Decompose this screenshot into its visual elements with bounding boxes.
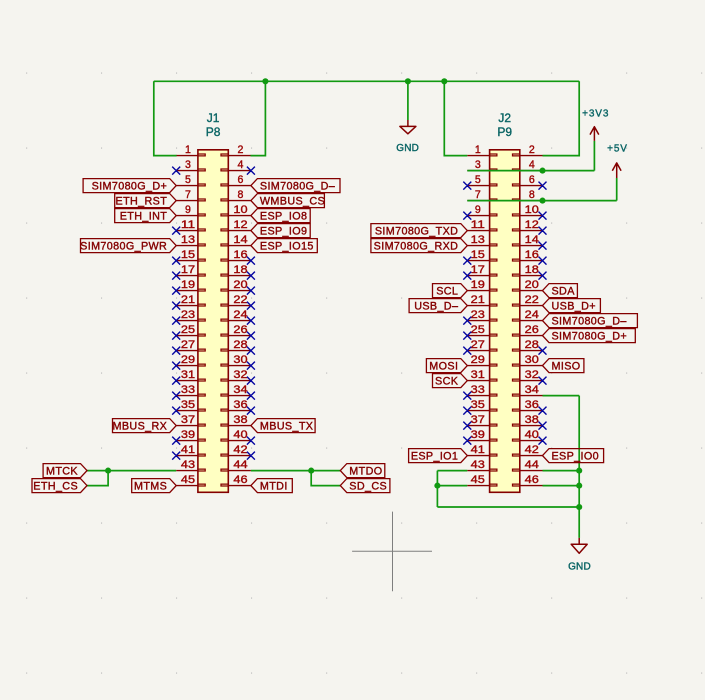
svg-text:43: 43 — [181, 459, 195, 471]
svg-text:32: 32 — [525, 369, 539, 381]
svg-text:43: 43 — [471, 459, 485, 471]
svg-text:36: 36 — [233, 399, 247, 411]
svg-text:45: 45 — [181, 474, 195, 486]
svg-text:35: 35 — [471, 399, 485, 411]
svg-text:20: 20 — [233, 279, 247, 291]
svg-text:SDA: SDA — [552, 286, 576, 298]
svg-text:J2: J2 — [498, 111, 511, 125]
svg-text:4: 4 — [238, 159, 244, 171]
svg-text:SIM7080G_PWR: SIM7080G_PWR — [80, 241, 167, 253]
svg-text:19: 19 — [181, 279, 195, 291]
svg-text:44: 44 — [233, 459, 247, 471]
svg-text:30: 30 — [233, 354, 247, 366]
svg-text:ESP_IO0: ESP_IO0 — [552, 451, 599, 463]
svg-text:29: 29 — [471, 354, 485, 366]
svg-text:3: 3 — [475, 159, 481, 171]
svg-text:ETH_RST: ETH_RST — [116, 196, 168, 208]
svg-text:MTDI: MTDI — [260, 481, 288, 493]
svg-text:P8: P8 — [206, 125, 221, 139]
svg-text:10: 10 — [525, 204, 539, 216]
svg-text:5: 5 — [475, 174, 481, 186]
svg-text:17: 17 — [181, 264, 195, 276]
svg-text:40: 40 — [233, 429, 247, 441]
svg-text:24: 24 — [525, 309, 539, 321]
svg-text:P9: P9 — [497, 125, 512, 139]
svg-text:8: 8 — [238, 189, 244, 201]
svg-text:SIM7080G_D–: SIM7080G_D– — [552, 316, 627, 328]
svg-text:41: 41 — [471, 444, 485, 456]
svg-text:34: 34 — [525, 384, 539, 396]
svg-text:46: 46 — [525, 474, 539, 486]
svg-text:MOSI: MOSI — [429, 361, 458, 373]
svg-text:J1: J1 — [207, 111, 220, 125]
svg-text:26: 26 — [233, 324, 247, 336]
svg-text:16: 16 — [233, 249, 247, 261]
svg-text:ETH_CS: ETH_CS — [33, 481, 78, 493]
svg-text:22: 22 — [525, 294, 539, 306]
svg-text:12: 12 — [233, 219, 247, 231]
svg-text:37: 37 — [471, 414, 485, 426]
svg-text:44: 44 — [525, 459, 539, 471]
svg-text:20: 20 — [525, 279, 539, 291]
svg-text:28: 28 — [525, 339, 539, 351]
svg-text:+3V3: +3V3 — [582, 108, 609, 119]
svg-text:29: 29 — [181, 354, 195, 366]
svg-text:SCK: SCK — [435, 376, 459, 388]
svg-text:6: 6 — [238, 174, 244, 186]
svg-text:39: 39 — [181, 429, 195, 441]
svg-text:33: 33 — [181, 384, 195, 396]
svg-text:GND: GND — [568, 561, 591, 572]
svg-text:SIM7080G_TXD: SIM7080G_TXD — [375, 226, 458, 238]
svg-text:WMBUS_CS: WMBUS_CS — [260, 196, 325, 208]
svg-text:MTCK: MTCK — [46, 466, 78, 478]
svg-text:14: 14 — [525, 234, 539, 246]
svg-text:18: 18 — [233, 264, 247, 276]
svg-text:46: 46 — [233, 474, 247, 486]
svg-text:18: 18 — [525, 264, 539, 276]
svg-text:32: 32 — [233, 369, 247, 381]
svg-text:13: 13 — [471, 234, 485, 246]
svg-text:SCL: SCL — [436, 286, 458, 298]
svg-text:2: 2 — [238, 144, 244, 156]
svg-text:1: 1 — [475, 144, 481, 156]
svg-text:MBUS_RX: MBUS_RX — [113, 421, 168, 433]
svg-text:42: 42 — [233, 444, 247, 456]
svg-text:SIM7080G_RXD: SIM7080G_RXD — [374, 241, 459, 253]
svg-text:25: 25 — [181, 324, 195, 336]
svg-text:22: 22 — [233, 294, 247, 306]
svg-text:3: 3 — [185, 159, 191, 171]
svg-text:MISO: MISO — [552, 361, 581, 373]
svg-text:27: 27 — [181, 339, 195, 351]
svg-text:11: 11 — [181, 219, 195, 231]
svg-text:38: 38 — [525, 414, 539, 426]
svg-text:19: 19 — [471, 279, 485, 291]
svg-text:38: 38 — [233, 414, 247, 426]
svg-text:ESP_IO15: ESP_IO15 — [260, 241, 314, 253]
svg-text:MBUS_TX: MBUS_TX — [260, 421, 313, 433]
svg-text:41: 41 — [181, 444, 195, 456]
svg-text:23: 23 — [181, 309, 195, 321]
svg-text:36: 36 — [525, 399, 539, 411]
svg-text:16: 16 — [525, 249, 539, 261]
svg-text:9: 9 — [185, 204, 191, 216]
svg-text:ETH_INT: ETH_INT — [120, 211, 167, 223]
svg-text:21: 21 — [181, 294, 195, 306]
svg-text:ESP_IO9: ESP_IO9 — [260, 226, 307, 238]
svg-text:26: 26 — [525, 324, 539, 336]
svg-text:2: 2 — [529, 144, 535, 156]
svg-text:SIM7080G_D+: SIM7080G_D+ — [92, 181, 168, 193]
svg-text:ESP_IO8: ESP_IO8 — [260, 211, 307, 223]
svg-text:6: 6 — [529, 174, 535, 186]
svg-text:37: 37 — [181, 414, 195, 426]
svg-text:10: 10 — [233, 204, 247, 216]
svg-text:9: 9 — [475, 204, 481, 216]
svg-text:39: 39 — [471, 429, 485, 441]
svg-text:7: 7 — [475, 189, 481, 201]
svg-text:42: 42 — [525, 444, 539, 456]
svg-text:35: 35 — [181, 399, 195, 411]
svg-text:31: 31 — [181, 369, 195, 381]
svg-text:27: 27 — [471, 339, 485, 351]
svg-text:45: 45 — [471, 474, 485, 486]
svg-text:USB_D+: USB_D+ — [552, 301, 596, 313]
svg-text:24: 24 — [233, 309, 247, 321]
svg-text:21: 21 — [471, 294, 485, 306]
svg-text:15: 15 — [471, 249, 485, 261]
svg-text:1: 1 — [185, 144, 191, 156]
svg-text:14: 14 — [233, 234, 247, 246]
svg-text:23: 23 — [471, 309, 485, 321]
svg-text:+5V: +5V — [607, 144, 628, 155]
svg-text:40: 40 — [525, 429, 539, 441]
svg-text:34: 34 — [233, 384, 247, 396]
svg-text:SD_CS: SD_CS — [349, 481, 387, 493]
svg-text:31: 31 — [471, 369, 485, 381]
svg-text:28: 28 — [233, 339, 247, 351]
svg-text:USB_D–: USB_D– — [414, 301, 458, 313]
svg-text:17: 17 — [471, 264, 485, 276]
svg-text:5: 5 — [185, 174, 191, 186]
svg-text:ESP_IO1: ESP_IO1 — [411, 451, 458, 463]
svg-text:8: 8 — [529, 189, 535, 201]
svg-text:33: 33 — [471, 384, 485, 396]
svg-text:25: 25 — [471, 324, 485, 336]
svg-text:30: 30 — [525, 354, 539, 366]
svg-text:11: 11 — [471, 219, 485, 231]
svg-text:MTMS: MTMS — [134, 481, 167, 493]
svg-text:GND: GND — [396, 143, 419, 154]
svg-text:SIM7080G_D+: SIM7080G_D+ — [552, 331, 628, 343]
svg-text:SIM7080G_D–: SIM7080G_D– — [260, 181, 335, 193]
svg-text:MTDO: MTDO — [349, 466, 382, 478]
svg-text:7: 7 — [185, 189, 191, 201]
svg-text:12: 12 — [525, 219, 539, 231]
svg-text:15: 15 — [181, 249, 195, 261]
svg-text:4: 4 — [529, 159, 535, 171]
svg-text:13: 13 — [181, 234, 195, 246]
